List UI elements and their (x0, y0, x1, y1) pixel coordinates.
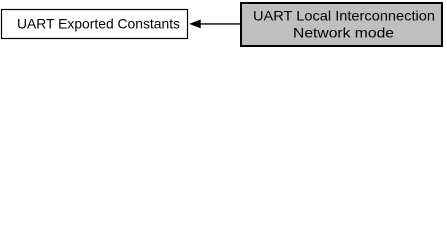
wire: edge line (200, 23, 241, 25)
node: UART Exported Constants (box) (2, 10, 188, 39)
svg-text:Network mode: Network mode (293, 25, 394, 41)
svg-text:UART Exported Constants: UART Exported Constants (17, 16, 180, 32)
node: UART Local Interconnection Network mode (current, filled) (241, 3, 442, 46)
svg-text:UART Local Interconnection: UART Local Interconnection (253, 7, 435, 23)
arrowhead (190, 20, 201, 28)
